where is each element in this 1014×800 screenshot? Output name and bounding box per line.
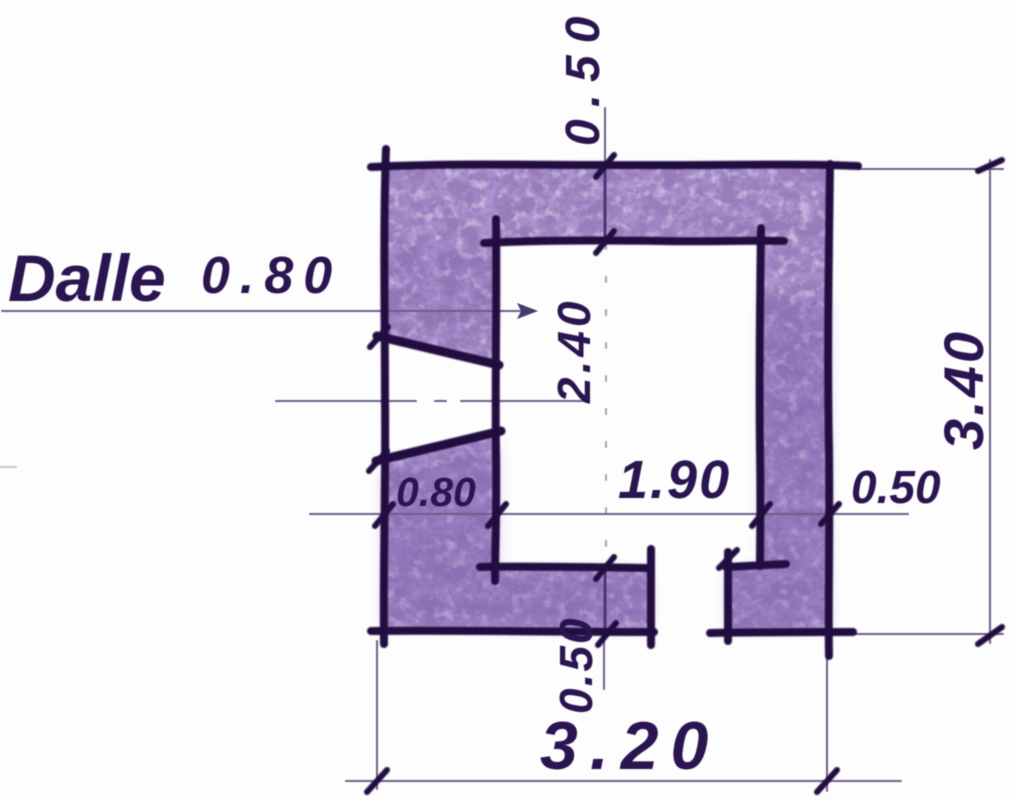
left outer edge [384, 149, 386, 644]
0.50 dimension line through bottom wall [604, 568, 607, 631]
bottom right connector [853, 633, 1003, 635]
arrowhead of leader [517, 303, 538, 319]
tick at left outer edge, lower diagonal end [369, 451, 387, 471]
tick at bottom of right 3.40 dimension line [978, 627, 1002, 644]
bottom outer edge left segment [371, 631, 654, 632]
thick ink outlines [371, 149, 858, 656]
dark shade lower left wall [384, 445, 497, 625]
bottom left extension line [376, 641, 378, 789]
right outer edge [828, 164, 830, 656]
tick at right end of 3.20 dimension line [817, 770, 837, 792]
right wall slab [761, 240, 830, 631]
svg-text:0.80: 0.80 [396, 469, 476, 515]
top right connector [858, 168, 1003, 170]
svg-text:0.50: 0.50 [851, 461, 941, 513]
top 0.50 dimension vertical at x=605 [604, 108, 606, 165]
faint stray mark left margin [0, 466, 16, 468]
foot top edge [726, 564, 786, 567]
tick at inner bottom edge x=605 [596, 557, 614, 579]
dark shade right wall [763, 300, 828, 628]
inner left edge [495, 219, 496, 581]
inner top edge [484, 240, 784, 243]
extension below bottom wall at x=605 [603, 632, 605, 689]
svg-text:0.50: 0.50 [557, 5, 610, 146]
tick at left end of 3.20 dimension line [367, 770, 387, 792]
tick at left outer edge on 0.80 dimension line [375, 504, 393, 526]
tick at top outer edge x=605 [596, 155, 614, 177]
bottom wall left segment [496, 567, 651, 631]
svg-text:2.40: 2.40 [548, 297, 600, 404]
right 3.40 dimension vertical [989, 160, 991, 643]
centerline through opening [276, 400, 416, 402]
top outer edge [371, 165, 858, 168]
wall fill: concrete ring shaded purple [384, 165, 830, 631]
bottom wall right foot [728, 566, 762, 631]
bottom outer edge right segment [710, 632, 853, 633]
tick at inner top edge x=605 [596, 231, 614, 253]
tick at gap right corner [719, 550, 737, 568]
svg-text:1.90: 1.90 [618, 450, 731, 510]
tick at top of right 3.40 dimension line [978, 160, 1002, 171]
tick marks [367, 155, 1002, 792]
gap right vertical edge [724, 552, 732, 641]
tick at inner right edge on 1.90/0.50 dimension line [752, 504, 770, 526]
leader line "Dalle 0.80" [2, 310, 520, 312]
svg-text:0.80: 0.80 [201, 247, 342, 305]
lower diagonal of wall opening [376, 431, 501, 461]
horizontal dimension line y=515 [310, 513, 908, 515]
tick at left outer edge, upper diagonal end [370, 327, 388, 347]
upper diagonal of wall opening [377, 336, 499, 365]
2.40 dimension dashed line across courtyard [605, 244, 607, 566]
svg-text:Dalle: Dalle [8, 241, 166, 315]
0.50 dimension line through top wall [604, 165, 607, 242]
bottom 3.20 dimension line [346, 780, 901, 782]
end edge of bottom-left wall segment [647, 549, 655, 645]
top wall slab [384, 165, 830, 241]
svg-text:3.40: 3.40 [932, 329, 995, 450]
dark shade bottom wall left segment [496, 572, 648, 628]
inner bottom edge (top of bottom wall, left segment) [480, 567, 651, 568]
darker saturated patches on lower walls [384, 245, 828, 628]
centerline short dash [435, 400, 446, 402]
svg-text:0.50: 0.50 [550, 616, 602, 714]
centerline right segment [461, 400, 589, 402]
inner right edge [760, 228, 761, 566]
dark shade bottom wall foot [728, 570, 826, 628]
bottom right extension line [826, 655, 828, 791]
left wall upper piece [384, 240, 497, 363]
dark shade upper left wall [388, 245, 494, 335]
left wall lower piece [384, 432, 497, 631]
svg-text:3.20: 3.20 [540, 708, 720, 784]
tick at bottom outer edge x=605 [598, 623, 616, 645]
tick at outer right edge on 0.50 dimension line [821, 504, 839, 524]
tick at inner left edge on 0.80/1.90 dimension line [488, 504, 506, 526]
